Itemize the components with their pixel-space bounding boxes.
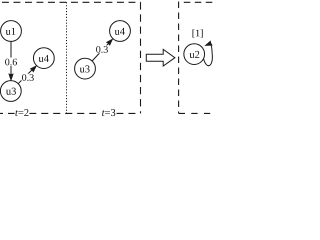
node u3 (t=3 panel): [75, 58, 96, 79]
arrowhead into u4: [30, 66, 36, 72]
wire: self-loop on u2: [203, 44, 212, 66]
label [1]: [193, 29, 203, 37]
dotted divider between t=2 and t=3 panels: [66, 2, 68, 113]
arrowhead into u2 (self-loop): [205, 41, 212, 45]
arrowhead into u4 (t=3 panel): [107, 39, 113, 45]
label t=3: [101, 107, 117, 118]
node u4 (t=2 panel): [33, 48, 54, 69]
node u3 (t=2 panel): [0, 81, 21, 102]
snapshot panel 3 dashed frame: [179, 2, 214, 114]
node u1: [1, 21, 22, 42]
arrowhead into u3: [9, 74, 13, 80]
label 0.3 (t=3 panel): [96, 45, 109, 53]
wire: edge u1->u3: [10, 42, 12, 77]
node u2: [184, 44, 205, 65]
wire: edge u3->u4 (t=3 panel): [92, 43, 109, 61]
wire: edge u3->u4 (t=2 panel): [18, 69, 32, 83]
big hollow arrow between panels: [146, 49, 175, 66]
label t=2: [15, 107, 30, 118]
snapshot panel 1+2 dashed frame: [0, 2, 141, 113]
label 0.6: [5, 58, 18, 67]
label 0.3 (t=2 panel): [22, 74, 35, 82]
node u4 (t=3 panel): [110, 21, 131, 42]
